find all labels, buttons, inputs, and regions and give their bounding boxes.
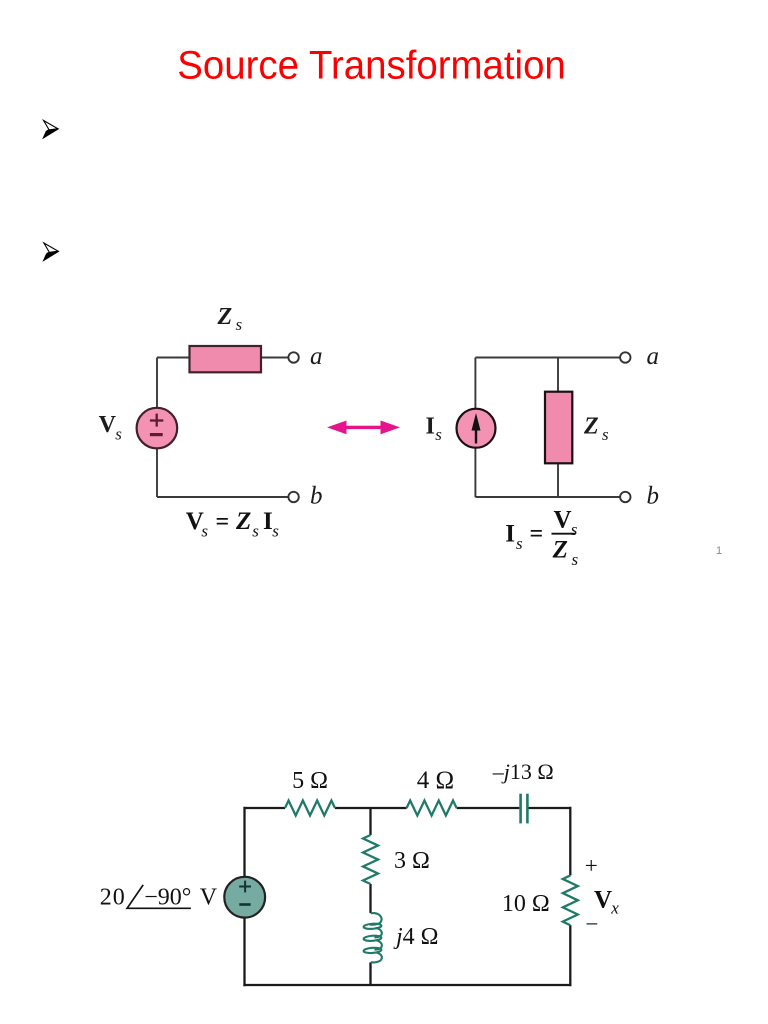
svg-text:b: b bbox=[310, 483, 323, 510]
fraction bar bbox=[552, 533, 576, 535]
wire: Zs to terminal a bbox=[261, 357, 288, 359]
terminal a (fig A) bbox=[288, 352, 298, 362]
svg-text:−: − bbox=[586, 912, 599, 937]
wire: Zs branch upper bbox=[557, 358, 559, 392]
svg-text:V: V bbox=[594, 887, 612, 914]
plus sign inside Vs bbox=[150, 414, 163, 427]
svg-text:Z: Z bbox=[235, 508, 251, 535]
wire: right vertical lower bbox=[569, 925, 571, 986]
resistor 5 ohm (zigzag) bbox=[285, 801, 335, 816]
svg-text:V: V bbox=[554, 506, 572, 533]
bullet arrowhead 1 bbox=[43, 121, 58, 139]
svg-text:1: 1 bbox=[716, 545, 722, 557]
wire: middle branch upper bbox=[369, 808, 371, 835]
wire: left vertical lower bbox=[474, 448, 476, 497]
svg-text:Z: Z bbox=[552, 537, 568, 564]
wire: left vertical lower bbox=[156, 448, 158, 497]
equation Is = Vs/Zs bbox=[505, 506, 578, 569]
wire: left vertical lower bbox=[243, 918, 245, 987]
svg-text:Source Transformation: Source Transformation bbox=[177, 44, 566, 88]
svg-text:s: s bbox=[252, 522, 259, 541]
svg-text:a: a bbox=[310, 343, 323, 370]
capacitor -j13 ohm plates bbox=[521, 794, 528, 824]
wire: left vertical upper bbox=[243, 807, 245, 877]
svg-text:s: s bbox=[201, 522, 208, 541]
impedance Zs rectangle (series) bbox=[190, 346, 262, 372]
svg-text:b: b bbox=[647, 483, 660, 510]
svg-text:−90°: −90° bbox=[144, 885, 191, 911]
svg-text:s: s bbox=[572, 550, 579, 569]
wire: bottom horizontal bbox=[475, 496, 620, 498]
wire: right vertical upper bbox=[569, 807, 571, 876]
wire: middle branch between 3ohm and coil bbox=[369, 884, 371, 913]
svg-text:5 Ω: 5 Ω bbox=[292, 768, 328, 794]
wire: capacitor to top-right corner bbox=[528, 807, 570, 809]
transformation double arrow bbox=[327, 421, 400, 435]
svg-text:=: = bbox=[216, 509, 230, 535]
svg-text:x: x bbox=[610, 899, 619, 918]
wire: middle branch lower bbox=[369, 962, 371, 985]
svg-text:s: s bbox=[516, 534, 523, 553]
angle symbol bbox=[127, 885, 191, 909]
current source Is circle bbox=[457, 409, 496, 448]
equation Vs = Zs Is bbox=[186, 508, 279, 541]
svg-text:j4 Ω: j4 Ω bbox=[393, 924, 439, 950]
resistor 3 ohm (vertical zigzag) bbox=[363, 835, 378, 884]
svg-text:=: = bbox=[530, 521, 544, 547]
wire: left vertical upper bbox=[156, 358, 158, 409]
svg-text:Z: Z bbox=[583, 414, 599, 440]
voltage source 20/-90 circle bbox=[224, 877, 265, 918]
svg-text:–j13 Ω: –j13 Ω bbox=[492, 759, 554, 784]
inductor j4 ohm (coil) bbox=[363, 913, 381, 962]
svg-text:V: V bbox=[200, 885, 218, 911]
wire: top-left segment bbox=[245, 807, 286, 809]
svg-text:2: 2 bbox=[100, 885, 112, 911]
svg-text:3 Ω: 3 Ω bbox=[394, 848, 430, 874]
svg-text:s: s bbox=[236, 315, 243, 334]
wire: left vertical upper bbox=[474, 358, 476, 409]
svg-text:s: s bbox=[272, 522, 279, 541]
svg-text:s: s bbox=[435, 425, 442, 444]
terminal b (fig B) bbox=[620, 492, 630, 502]
resistor 4 ohm (zigzag) bbox=[407, 801, 457, 816]
resistor 10 ohm (vertical zigzag) bbox=[563, 875, 578, 925]
bullet arrowhead 2 bbox=[44, 243, 59, 261]
svg-text:4 Ω: 4 Ω bbox=[417, 767, 454, 794]
svg-text:0: 0 bbox=[113, 885, 125, 911]
svg-text:s: s bbox=[602, 425, 609, 444]
plus sign inside source bbox=[239, 881, 251, 893]
svg-text:I: I bbox=[426, 413, 435, 439]
voltage source Vs circle bbox=[137, 408, 178, 449]
wire: between 4ohm and capacitor bbox=[457, 807, 520, 809]
wire: top-left horizontal to Zs bbox=[157, 357, 190, 359]
svg-text:s: s bbox=[115, 425, 122, 444]
svg-text:a: a bbox=[647, 343, 660, 370]
svg-text:V: V bbox=[99, 412, 117, 438]
impedance Zs rectangle (parallel) bbox=[545, 392, 572, 464]
wire: bottom horizontal to terminal b bbox=[157, 496, 288, 498]
svg-text:+: + bbox=[585, 853, 598, 878]
wire: bottom horizontal bbox=[243, 984, 571, 986]
svg-text:Z: Z bbox=[217, 304, 233, 330]
wire: top horizontal bbox=[475, 357, 620, 359]
minus sign inside source bbox=[239, 903, 250, 906]
wire: between 5ohm and node bbox=[335, 807, 407, 809]
minus sign inside Vs bbox=[150, 433, 163, 436]
svg-text:10 Ω: 10 Ω bbox=[502, 891, 550, 917]
terminal a (fig B) bbox=[620, 352, 630, 362]
terminal b (fig A) bbox=[288, 492, 298, 502]
svg-text:s: s bbox=[571, 520, 578, 539]
wire: Zs branch lower bbox=[557, 463, 559, 497]
arrow inside Is bbox=[475, 429, 477, 444]
svg-text:I: I bbox=[505, 521, 515, 548]
